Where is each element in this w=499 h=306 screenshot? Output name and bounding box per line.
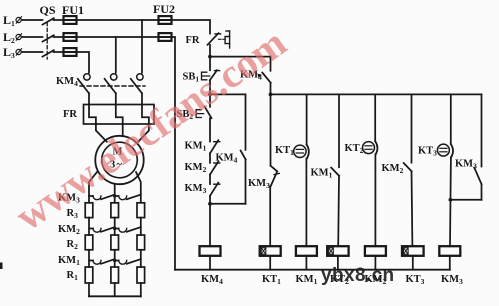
contactor KM2 bridge contact b [115, 227, 141, 232]
contactor KM1 NO contact (feeds KT2) [331, 168, 339, 247]
contactor KM2 bridge contact a [89, 227, 115, 232]
svg-text:FU1: FU1 [62, 3, 84, 17]
resistor R3 phase 3 [137, 203, 145, 218]
wire bus down branch KM2 coil [374, 94, 376, 141]
thermal relay FR heater box [84, 105, 155, 125]
control circuit bottom rail [175, 269, 450, 271]
wire bus down branch KT3 coil [411, 94, 413, 162]
wire L2 drop [115, 37, 117, 73]
node B [208, 93, 212, 97]
pushbutton SB1 (stop, NC) [202, 70, 220, 80]
wire coil KM4 to bottom rail [209, 256, 211, 270]
wire FR to motor phase 3 [138, 124, 149, 142]
wire bus down branch KM3 coil [450, 94, 452, 144]
node rotor mid KM1 row [113, 259, 116, 262]
contactor KM3 bridge contact a [89, 195, 115, 200]
rotor wires to star point [89, 283, 141, 296]
resistor R2 phase 1 [85, 235, 93, 250]
wire FU2 pole2 to left control rail [172, 37, 176, 270]
coil KT2 (time relay) [327, 246, 348, 256]
contactor KM1 bridge contact b [115, 259, 141, 264]
wire bus down branch KT2 coil [338, 94, 340, 167]
fuse FU1 pole 2 [64, 33, 77, 41]
wire coil KT2 to bottom rail [337, 256, 339, 270]
contactor KM3 NO contact (feeds KT1) [271, 166, 280, 187]
coil KM1 [296, 246, 317, 256]
scan artifact left edge [0, 263, 3, 270]
wire KM1 to KM2 [209, 153, 211, 163]
wire KM3 NO to coil KT1 [269, 186, 271, 246]
resistor R2 phase 3 [137, 235, 145, 250]
contactor KM4 main contact pole 1 [78, 74, 90, 105]
wire L2 bus to FU2 [77, 36, 159, 38]
fuse FU2 pole 1 [159, 16, 172, 24]
wire coil KT3 to bottom rail [412, 256, 414, 270]
svg-text:ybx8.cn: ybx8.cn [321, 265, 395, 286]
switch QS pole 2 [43, 35, 54, 41]
wire node A down [209, 57, 211, 71]
KM4 main contacts linkage (dashed) [80, 85, 145, 87]
wire L1 input [22, 19, 43, 21]
wire KT3 contact to coil KM3 [449, 157, 452, 246]
contactor KM4 main contact pole 3 [131, 74, 143, 105]
svg-text:FR: FR [186, 35, 200, 46]
contactor KM3 NC interlock contact [210, 183, 220, 196]
contactor KM1 NC interlock contact [210, 140, 220, 153]
contactor KM1 bridge contact a [89, 259, 115, 264]
resistor R1 phase 2 [111, 267, 119, 283]
resistor R3 phase 1 [85, 203, 93, 218]
node D (bus start) [269, 93, 273, 97]
wire FR to node A [209, 45, 211, 57]
node A [208, 55, 212, 59]
FR heater element phase 3 [142, 105, 149, 125]
wire L1 bus to FU2 [77, 19, 159, 21]
contactor KM2 NC interlock contact [210, 162, 220, 175]
time relay KT2 delayed NO contact [363, 141, 378, 154]
wire L2 input [22, 36, 43, 38]
wire coil KM1 to bottom rail [305, 256, 307, 270]
wire bus down branch KM1 coil [306, 94, 308, 144]
wire node B down [209, 94, 211, 106]
FR trip device symbol [225, 31, 230, 48]
coil KT1 (time relay) [260, 246, 281, 256]
wire QS to FU1 row L1 [54, 19, 64, 21]
terminal L3 [16, 49, 22, 56]
rotor wire left [89, 172, 97, 203]
wire SB2 to KM1 NC [209, 118, 211, 141]
node E (KM3 holding tie) [449, 198, 453, 202]
FR heater element phase 1 [89, 105, 96, 125]
wire QS to FU1 row L3 [54, 51, 64, 53]
svg-text:FU2: FU2 [153, 2, 175, 16]
pushbutton SB2 (start, NO) [196, 107, 211, 119]
switch QS pole 1 [43, 18, 54, 24]
rotor wires R2 to KM1 row [89, 250, 141, 267]
wire KM2 to KM3 [209, 175, 211, 184]
wire bus down branch KT1 [270, 94, 272, 165]
wire L3 to drop [77, 52, 90, 73]
svg-text:QS: QS [40, 3, 56, 17]
contactor KM3 bridge contact b [115, 195, 141, 200]
switch QS pole 3 [43, 50, 54, 56]
rotor star point bus [89, 295, 141, 297]
wire FU2 to control branch top [172, 20, 211, 34]
wire node B to KM4 parallel branch [210, 93, 246, 95]
wire SB1 to node B [209, 80, 211, 94]
resistor R2 phase 2 [111, 235, 119, 250]
FR heater element phase 2 [116, 105, 123, 125]
contactor KM2 NO contact (feeds KT3) [404, 163, 413, 246]
wire FR to motor phase 1 [96, 124, 107, 142]
contactor KM4 holding contact (to bus) [257, 57, 271, 95]
rotor wire right [136, 172, 141, 203]
fuse FU1 pole 3 [64, 48, 77, 56]
time relay KT3 delayed NO contact [437, 144, 453, 157]
rotor wire middle [114, 184, 116, 203]
node C [208, 202, 212, 206]
rotor wires R3 to KM2 row [89, 218, 141, 235]
wire coil KT1 to bottom rail [269, 256, 271, 270]
fuse FU1 pole 1 [64, 16, 77, 24]
coil KT3 (time relay) [402, 246, 424, 256]
wire L1 drop [141, 20, 143, 73]
contactor KM4 main contact pole 2 [105, 74, 117, 105]
thermal relay FR NC contact [208, 33, 226, 45]
wire node C to coil KM4 [209, 204, 211, 246]
wire L3 input [22, 51, 43, 53]
motor M stator circle [95, 136, 143, 184]
svg-text:FR: FR [63, 109, 77, 120]
fuse FU2 pole 2 [159, 33, 172, 41]
resistor R3 phase 2 [111, 203, 119, 218]
time relay KT1 delayed NO contact [294, 145, 309, 159]
wire QS to FU1 row L2 [54, 36, 64, 38]
node rotor mid KM2 row [113, 227, 116, 230]
coil KM2 [365, 246, 386, 256]
wire node A to KM4 holding branch [210, 56, 271, 58]
wire KT2 contact to coil KM2 [374, 154, 376, 246]
coil KM3 [439, 246, 460, 256]
resistor R1 phase 3 [137, 267, 145, 283]
motor M rotor circle [102, 142, 138, 178]
contactor KM4 parallel holding contact branch [210, 94, 246, 203]
wire coil KM2 to bottom rail [374, 256, 376, 270]
control bus wire [271, 93, 482, 95]
terminal L1 [16, 17, 22, 24]
switch QS linkage (dashed) [46, 23, 48, 60]
wire coil KM3 to bottom rail [449, 256, 451, 270]
wire KM3 NC to node C [209, 196, 211, 204]
wire KT1 contact to coil KM1 [305, 158, 307, 246]
resistor R1 phase 1 [85, 267, 93, 283]
terminal L2 [16, 34, 22, 41]
wire FR to motor phase 2 [122, 124, 124, 136]
node rotor mid KM3 row [113, 194, 116, 197]
contactor KM3 holding contact branch [450, 94, 481, 199]
coil KM4 [200, 246, 221, 256]
